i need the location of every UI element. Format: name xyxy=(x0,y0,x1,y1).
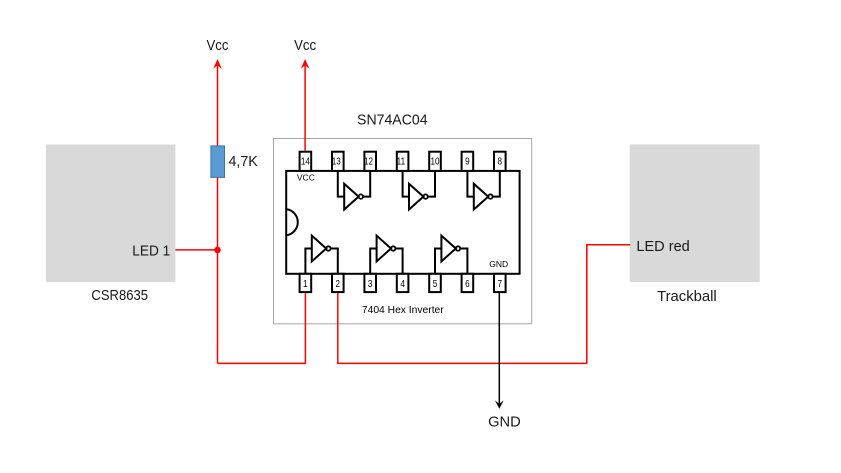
svg-text:5: 5 xyxy=(433,278,438,289)
svg-text:3: 3 xyxy=(368,278,373,289)
svg-text:Trackball: Trackball xyxy=(657,288,717,305)
svg-text:LED red: LED red xyxy=(636,239,689,255)
svg-text:7: 7 xyxy=(498,278,503,289)
svg-text:8: 8 xyxy=(498,155,503,166)
svg-text:SN74AC04: SN74AC04 xyxy=(357,112,427,128)
svg-text:9: 9 xyxy=(465,155,470,166)
svg-text:2: 2 xyxy=(336,278,341,289)
svg-text:4: 4 xyxy=(400,278,405,289)
svg-text:10: 10 xyxy=(430,155,439,166)
svg-text:Vcc: Vcc xyxy=(294,36,316,53)
svg-text:14: 14 xyxy=(301,155,310,166)
svg-text:4,7K: 4,7K xyxy=(229,154,259,170)
svg-text:7404 Hex Inverter: 7404 Hex Inverter xyxy=(362,305,444,316)
svg-text:GND: GND xyxy=(489,259,508,269)
svg-text:13: 13 xyxy=(332,155,341,166)
svg-text:11: 11 xyxy=(397,155,405,166)
svg-text:1: 1 xyxy=(303,278,308,289)
svg-text:GND: GND xyxy=(488,414,521,430)
svg-text:6: 6 xyxy=(465,278,470,289)
svg-text:VCC: VCC xyxy=(297,172,315,182)
svg-text:12: 12 xyxy=(364,155,373,166)
svg-text:LED 1: LED 1 xyxy=(132,243,170,260)
svg-text:CSR8635: CSR8635 xyxy=(91,286,148,303)
svg-text:Vcc: Vcc xyxy=(207,36,229,53)
